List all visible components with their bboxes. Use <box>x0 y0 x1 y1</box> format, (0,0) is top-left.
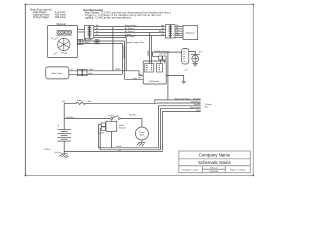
flywheel pointer arrow <box>54 38 57 40</box>
page border frame <box>25 4 253 175</box>
svg-text:Auto Choke: Auto Choke <box>52 72 63 75</box>
ground coil <box>182 81 186 83</box>
svg-text:Blk/Wh: Blk/Wh <box>115 69 120 71</box>
wire color labels at CDI inputs <box>138 73 141 80</box>
svg-text:Blk: Blk <box>162 28 164 30</box>
wire harness main AC runs <box>94 27 166 36</box>
connector J1 <box>84 26 93 39</box>
wire pickup drop 2 <box>122 44 124 75</box>
svg-text:Designer's name: Designer's name <box>182 168 199 171</box>
wire switch to motor <box>120 119 142 127</box>
svg-text:solenoid: solenoid <box>98 132 104 134</box>
title block <box>179 151 250 173</box>
auto choke <box>46 67 69 79</box>
svg-text:Red Wire: Red Wire <box>129 113 136 116</box>
svg-text:AC Power 2: AC Power 2 <box>125 30 135 33</box>
svg-text:Ignition Trigger Pulse: Ignition Trigger Pulse <box>127 41 144 44</box>
connector J5 solenoid bullets <box>101 123 105 130</box>
note: motor voltages text block <box>83 9 172 20</box>
CDI module U2 <box>143 61 166 84</box>
connector J2 <box>166 25 176 39</box>
svg-text:Red Wire: Red Wire <box>67 116 74 119</box>
svg-text:Green: Green <box>85 42 90 44</box>
wire run 3 blue/wh <box>98 106 200 148</box>
svg-text:Solenoid: Solenoid <box>119 128 126 130</box>
regulator U1 <box>183 26 198 40</box>
fuse F1 <box>64 102 157 104</box>
svg-text:Lighting - 12 VAC at idle, and: Lighting - 12 VAC at idle, and more with… <box>85 16 131 19</box>
svg-text:Rev 1.0: Rev 1.0 <box>210 168 218 170</box>
wire run 4 starter switch <box>100 109 201 150</box>
svg-text:Grn/Yel: Grn/Yel <box>116 145 122 148</box>
wire choke leads <box>69 71 143 80</box>
svg-text:Timing Trigger:: Timing Trigger: <box>33 16 50 19</box>
ignition coil T1 <box>182 48 189 64</box>
svg-text:Grn Wire: Grn Wire <box>55 152 61 154</box>
svg-text:CDI Module: CDI Module <box>149 81 160 83</box>
svg-text:Schematic Name: Schematic Name <box>198 160 231 165</box>
svg-text:Grn: Grn <box>118 149 121 152</box>
battery BT1 <box>63 103 65 129</box>
ground starter motor <box>137 140 146 146</box>
svg-text:Blk: Blk <box>176 27 178 29</box>
pickup coil L2 <box>64 30 71 34</box>
source coil L1 <box>57 30 64 34</box>
svg-text:Company Name: Company Name <box>199 153 231 158</box>
kill switch label stack <box>175 97 202 112</box>
svg-text:Page 1 of name: Page 1 of name <box>230 169 246 171</box>
starter motor M2 <box>135 127 148 140</box>
wire battery power riser <box>112 27 114 71</box>
svg-text:Grn: Grn <box>96 31 99 33</box>
wire stator stubs to connector J1 <box>78 29 85 32</box>
wire solenoid output <box>110 131 112 148</box>
starter switch S1 <box>111 116 120 120</box>
svg-text:AC Power 1: AC Power 1 <box>125 27 135 30</box>
wire stop switch drops <box>160 60 164 64</box>
svg-text:( 10 Amp ): ( 10 Amp ) <box>76 99 84 102</box>
wire battery negative <box>63 141 65 154</box>
magneto M1 <box>48 26 78 58</box>
svg-text:Grn: Grn <box>161 34 164 36</box>
wire run 5 yellow <box>64 112 201 152</box>
svg-text:Blk/Wh: Blk/Wh <box>159 31 164 33</box>
svg-text:Battery Power: Battery Power <box>125 24 137 27</box>
svg-text:Red: Red <box>62 101 65 103</box>
ground spark plug <box>192 62 198 66</box>
svg-text:Magneto: Magneto <box>57 23 67 26</box>
wire kill switch run 1 <box>155 100 201 103</box>
svg-text:1/30/2006: 1/30/2006 <box>209 171 219 173</box>
wire kill riser <box>167 52 169 100</box>
svg-text:+: + <box>57 124 59 128</box>
wire color labels near J1 <box>96 25 99 36</box>
svg-text:Blk/Wh: Blk/Wh <box>160 53 167 55</box>
wire stop switch feed <box>153 52 182 56</box>
wire color labels near J2 <box>159 25 164 36</box>
ground battery <box>59 154 68 159</box>
wire CDI ground link <box>166 75 184 81</box>
connector J3 pickup bullet pair <box>77 39 83 44</box>
connector J4 choke bullets <box>78 69 87 75</box>
svg-text:Lighting Source Coils: Lighting Source Coils <box>56 34 72 37</box>
connector CDI A <box>145 64 154 73</box>
connector CDI B <box>157 64 163 73</box>
wire battery to switch <box>64 118 111 120</box>
stop switch connector boxes <box>159 56 166 60</box>
svg-text:Red: Red <box>96 25 99 27</box>
svg-text:Red: Red <box>161 25 164 27</box>
net name labels mid-harness <box>125 24 137 38</box>
wire run 2 yellow/green <box>157 102 201 104</box>
starter solenoid K1 <box>106 121 117 131</box>
svg-text:Blue/Wh: Blue/Wh <box>85 39 91 41</box>
svg-text:Motor: Motor <box>140 133 145 136</box>
note: stator measurements text block <box>30 9 67 20</box>
wire auto choke feed run <box>94 38 126 71</box>
svg-text:Red: Red <box>88 101 91 103</box>
svg-text:Red: Red <box>138 78 141 80</box>
splice marks pickup pair <box>95 40 99 44</box>
svg-text:To Handle: To Handle <box>205 104 212 106</box>
svg-text:Regulator: Regulator <box>186 31 195 34</box>
svg-text:Bars: Bars <box>205 106 208 108</box>
wire color labels at regulator pins <box>176 25 179 36</box>
wire coil HT lead <box>189 52 195 55</box>
wire pickup pair from magneto <box>78 41 125 44</box>
timing mark <box>54 52 57 55</box>
svg-text:Timing: Timing <box>61 52 67 54</box>
svg-text:SP1: SP1 <box>199 51 202 53</box>
svg-text:Auto Choke: Auto Choke <box>125 35 135 38</box>
svg-text:Black: Black <box>89 73 93 75</box>
svg-text:Blk: Blk <box>96 28 98 30</box>
wire CDI trigger feeds from harness <box>149 33 151 64</box>
svg-text:240 vmax: 240 vmax <box>55 16 67 19</box>
wire pickup drop 1 <box>124 41 126 79</box>
svg-text:Red: Red <box>176 25 179 27</box>
svg-text:Fly: Fly <box>51 38 53 40</box>
wire regulator stubs <box>175 27 183 38</box>
spark plug P1 <box>191 55 200 63</box>
flywheel rotor <box>58 38 70 50</box>
